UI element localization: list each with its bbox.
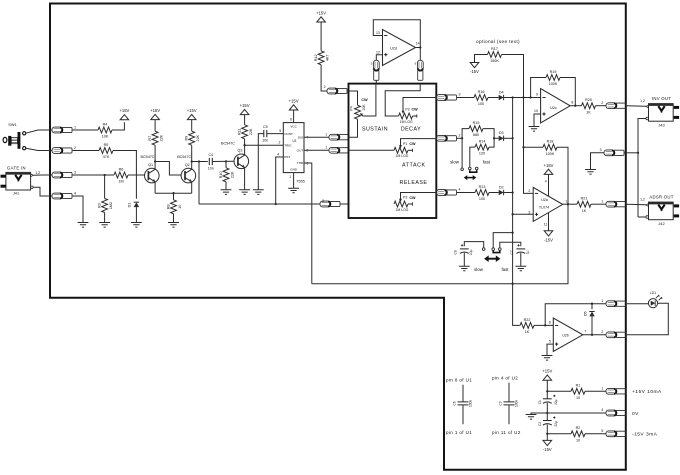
- svg-text:C5: C5: [263, 125, 268, 129]
- svg-text:22µ: 22µ: [554, 399, 558, 405]
- junction emitter rail / R8: [172, 192, 174, 194]
- wire to R18: [524, 146, 544, 148]
- potentiometer P1 ATTACK: [394, 142, 416, 158]
- svg-text:OUT: OUT: [297, 149, 304, 153]
- capacitor C5: [262, 125, 268, 143]
- wire U2a output down to bottom line: [513, 204, 568, 284]
- wire U2d pin 12 down: [376, 55, 382, 61]
- svg-text:optional (see text): optional (see text): [476, 39, 520, 44]
- junction gate line / R3: [103, 174, 105, 176]
- svg-text:5: 5: [549, 339, 551, 343]
- svg-text:CW: CW: [409, 142, 416, 146]
- wire U2a output to R21: [563, 203, 577, 205]
- wire up to R15: [462, 129, 469, 139]
- svg-text:1,2: 1,2: [35, 171, 40, 175]
- ground below C7: [515, 266, 526, 271]
- svg-text:1: 1: [325, 132, 327, 136]
- wire decay pot left to U2d output stub: [385, 84, 420, 116]
- +15V supply power header: [542, 369, 552, 381]
- LED LD1: [648, 291, 662, 308]
- svg-text:ADSR OUT: ADSR OUT: [649, 195, 673, 200]
- connector LED cathode: [606, 332, 626, 338]
- svg-text:100K: 100K: [546, 152, 555, 156]
- resistor R19: [546, 70, 560, 86]
- svg-text:D3: D3: [499, 131, 504, 135]
- svg-text:1K: 1K: [525, 330, 530, 334]
- svg-text:6: 6: [415, 61, 417, 65]
- svg-text:22K: 22K: [160, 134, 164, 141]
- resistor R12: [314, 51, 330, 65]
- wire R18 to U2a output: [557, 147, 568, 204]
- svg-text:680: 680: [473, 133, 479, 137]
- resistor R1: [571, 384, 585, 400]
- ground below C5: [253, 190, 264, 195]
- resistor R4: [98, 122, 112, 138]
- svg-text:1M LOG: 1M LOG: [396, 208, 409, 212]
- svg-text:fast: fast: [483, 159, 491, 164]
- svg-text:5: 5: [279, 129, 281, 133]
- ground below R8: [168, 223, 179, 228]
- svg-text:4K7: 4K7: [326, 55, 330, 62]
- svg-text:J41: J41: [13, 190, 19, 195]
- wire U2b output to connector: [583, 334, 606, 336]
- svg-text:RST: RST: [284, 155, 290, 159]
- wire R3 to ground: [104, 213, 106, 223]
- connector -15V: [606, 431, 626, 437]
- connector panel ground: [604, 150, 624, 156]
- resistor R16: [474, 90, 488, 106]
- resistor R20: [582, 98, 596, 114]
- junction R17/R18 column: [522, 96, 524, 98]
- junction U2b feedback: [544, 324, 546, 326]
- wire R10 to ground: [225, 182, 227, 190]
- svg-text:2: 2: [601, 101, 603, 105]
- wire R7 to Q1 collector: [154, 145, 156, 161]
- svg-text:150K: 150K: [490, 59, 499, 63]
- connector sustain top: [327, 88, 347, 94]
- svg-text:22K: 22K: [249, 128, 253, 135]
- svg-text:1: 1: [289, 175, 291, 179]
- svg-text:3: 3: [459, 93, 461, 97]
- svg-text:C3: C3: [498, 401, 502, 405]
- diode D3: [499, 131, 504, 141]
- svg-text:2: 2: [324, 85, 326, 89]
- wire D4 to U2c pin 9: [504, 97, 541, 99]
- svg-text:R1: R1: [576, 384, 581, 388]
- svg-text:R4: R4: [103, 122, 108, 126]
- junction sleeve bus: [637, 152, 639, 154]
- svg-text:-15V: -15V: [544, 237, 553, 242]
- wire to R19: [531, 78, 546, 98]
- +15V supply at R4: [119, 108, 129, 120]
- svg-text:R3: R3: [97, 203, 101, 208]
- svg-text:DIS: DIS: [298, 135, 303, 139]
- svg-text:P4: P4: [349, 106, 353, 110]
- svg-text:4: 4: [277, 153, 279, 157]
- wire THR down to bottom bus: [304, 163, 312, 284]
- wire C4 node down to release line: [198, 162, 200, 205]
- switch contact fast cap: [499, 248, 502, 251]
- ground below U1: [288, 188, 299, 193]
- wire U2b feedback top: [545, 304, 606, 326]
- svg-text:7555: 7555: [296, 179, 305, 184]
- wire R9 to Q2 collector: [191, 145, 193, 161]
- svg-text:CW: CW: [412, 108, 419, 112]
- wire bus to cap switch common: [493, 233, 512, 248]
- op-amp U2a: [533, 187, 563, 221]
- svg-text:slow: slow: [474, 267, 484, 272]
- svg-text:R13: R13: [479, 185, 486, 189]
- svg-text:13: 13: [376, 31, 380, 35]
- wire connector into pot box: [340, 203, 348, 205]
- wire RST down to release line: [276, 157, 284, 204]
- svg-text:3: 3: [74, 171, 76, 175]
- svg-text:pin 8 of U1: pin 8 of U1: [446, 378, 472, 383]
- timer U1 7555: [283, 123, 304, 173]
- +15V supply at R12: [316, 10, 326, 22]
- svg-text:slow: slow: [450, 160, 460, 165]
- ground below D1: [131, 223, 142, 228]
- wire to R1: [547, 390, 571, 392]
- ground at U2b: [542, 356, 553, 361]
- svg-text:10: 10: [576, 396, 580, 400]
- svg-text:1: 1: [74, 126, 76, 130]
- wire R20 to connector: [596, 105, 607, 107]
- -15V supply at U2a: [544, 231, 553, 243]
- resistor R5: [99, 143, 113, 159]
- svg-text:GATE IN: GATE IN: [7, 166, 26, 171]
- resistor R13: [475, 185, 489, 201]
- junction U2c output: [574, 105, 576, 107]
- resistor R17: [488, 47, 502, 63]
- op-amp U2b: [553, 318, 583, 352]
- wire VCC to +15V: [293, 110, 295, 122]
- wire into Q1 collector: [154, 162, 156, 170]
- svg-text:-15V 3mA: -15V 3mA: [632, 432, 658, 438]
- release right terminal tick: [412, 202, 414, 205]
- wire R17 to bus node: [502, 55, 524, 98]
- +15V supply at R9: [187, 108, 197, 120]
- svg-text:C2: C2: [538, 422, 542, 426]
- svg-text:fast: fast: [501, 267, 509, 272]
- junction R18 tap: [522, 146, 524, 148]
- diode D4: [499, 90, 504, 100]
- svg-text:8: 8: [571, 101, 573, 105]
- attack right terminal tick: [412, 149, 414, 152]
- svg-text:C8: C8: [454, 250, 458, 254]
- svg-text:C6: C6: [452, 401, 456, 405]
- junction bus / bottom line: [511, 283, 513, 285]
- wire U2a -15V pin: [548, 213, 550, 231]
- svg-text:TRIG: TRIG: [284, 143, 292, 147]
- wire R13 to D2: [489, 192, 499, 194]
- svg-text:LD1: LD1: [650, 291, 656, 295]
- wire fast contact to C7: [500, 242, 521, 248]
- wire U2d output down: [416, 48, 421, 61]
- wire J41 sleeve to connector: [33, 187, 52, 196]
- wire +15V to R12: [320, 22, 322, 51]
- switch contact slow: [461, 168, 464, 171]
- wire bus down to R22: [513, 284, 520, 326]
- wire C7 to ground: [520, 253, 522, 266]
- svg-text:1: 1: [565, 199, 567, 203]
- svg-text:4: 4: [601, 408, 603, 412]
- svg-text:SW1: SW1: [8, 122, 16, 127]
- resistor R11: [237, 125, 253, 139]
- wire R16 to D4: [488, 97, 499, 99]
- svg-text:14: 14: [416, 42, 420, 46]
- svg-text:1M: 1M: [118, 180, 123, 184]
- wire common emitter rail: [155, 192, 192, 194]
- svg-text:P2: P2: [405, 107, 409, 111]
- capacitor C2: [538, 416, 558, 426]
- svg-text:1µ: 1µ: [525, 250, 529, 254]
- connector OUT line: [329, 147, 349, 153]
- svg-text:R5: R5: [104, 143, 109, 147]
- junction 0V: [546, 412, 548, 414]
- svg-text:7: 7: [584, 329, 586, 333]
- svg-text:22K: 22K: [230, 171, 234, 178]
- svg-text:R16: R16: [478, 90, 485, 94]
- potentiometer P4 SUSTAIN: [349, 98, 368, 119]
- transistor Q1: [141, 155, 160, 183]
- svg-text:120: 120: [479, 152, 485, 156]
- wire connector to ground: [591, 153, 605, 170]
- svg-text:-15V: -15V: [470, 69, 479, 74]
- resistor R8: [166, 200, 182, 214]
- svg-text:100n: 100n: [469, 400, 473, 407]
- svg-text:0V: 0V: [632, 411, 639, 417]
- wire C4 to Q3 base: [212, 160, 234, 162]
- svg-text:U2d: U2d: [390, 46, 397, 50]
- svg-text:pin 11 of U2: pin 11 of U2: [492, 430, 521, 435]
- wire LED return loop: [626, 303, 668, 335]
- wire OUT to connector: [304, 149, 329, 151]
- wire R22 to U2b pin 6: [534, 324, 553, 326]
- svg-text:R20: R20: [585, 98, 592, 102]
- junction RST / release line: [275, 203, 277, 205]
- wire R14 right to join: [489, 138, 494, 147]
- svg-text:2: 2: [279, 140, 281, 144]
- svg-text:Q2: Q2: [185, 163, 190, 167]
- svg-text:BC547C: BC547C: [141, 155, 155, 159]
- wire SW1 contact 2 to connector: [26, 148, 52, 150]
- svg-text:+15V: +15V: [316, 10, 326, 15]
- capacitor C7: [510, 244, 529, 254]
- wire U2d feedback to pin 13: [373, 20, 420, 48]
- wire to R10: [225, 161, 227, 167]
- transistor Q3: [221, 141, 249, 168]
- wire C3 down: [508, 405, 510, 424]
- resistor R9: [185, 131, 201, 145]
- svg-text:10K: 10K: [362, 104, 366, 111]
- wire R11 down: [244, 139, 246, 145]
- decay right terminal tick: [416, 114, 418, 117]
- connector DIS line: [329, 134, 349, 140]
- svg-text:BC547C: BC547C: [221, 141, 235, 145]
- wire U2c output to R20: [570, 105, 581, 107]
- connector 0V: [606, 410, 626, 416]
- connector ADSR OUT: [606, 201, 626, 207]
- svg-text:11: 11: [544, 222, 548, 226]
- wire C5 to ground: [258, 134, 264, 190]
- svg-text:R14: R14: [479, 140, 486, 144]
- ground at U2c plus input: [529, 127, 540, 132]
- wire down to slow contact: [461, 138, 463, 167]
- svg-text:U2b: U2b: [562, 333, 569, 337]
- junction R19 tap: [529, 96, 531, 98]
- svg-text:+15V: +15V: [119, 108, 129, 113]
- wire CONT to C5: [267, 133, 284, 135]
- wire to C3: [508, 383, 510, 402]
- svg-text:1: 1: [601, 199, 603, 203]
- wire R12 to connector: [321, 65, 327, 91]
- svg-text:R7: R7: [148, 136, 152, 141]
- connector sustain wiper: [373, 60, 379, 80]
- wire R21 to connector: [591, 203, 606, 205]
- resistor R18: [543, 140, 557, 156]
- junction D3 bus: [511, 137, 513, 139]
- svg-text:+15V: +15V: [150, 108, 160, 113]
- svg-text:R11: R11: [237, 129, 241, 136]
- switch contact middle: [469, 167, 472, 170]
- op-amp U2d: [383, 30, 416, 66]
- wire C8 to ground: [463, 253, 465, 266]
- svg-text:GND: GND: [290, 168, 298, 172]
- svg-text:1: 1: [601, 299, 603, 303]
- wire release wiper to connector: [401, 193, 437, 201]
- svg-text:R10: R10: [219, 171, 223, 178]
- junction +15V / R1: [546, 390, 548, 392]
- wire J43 sleeve down: [638, 119, 646, 153]
- wire decay right stub: [413, 115, 417, 117]
- ground below Q3: [239, 190, 250, 195]
- -15V supply at R17: [470, 63, 479, 75]
- svg-text:C1: C1: [538, 400, 542, 404]
- svg-text:1: 1: [325, 146, 327, 150]
- svg-text:U2a: U2a: [541, 198, 548, 202]
- ground below C8: [459, 266, 470, 271]
- switch contact slow cap: [482, 248, 485, 251]
- switch shorting link caps: [493, 251, 500, 253]
- wire connector to R13: [457, 192, 475, 194]
- svg-text:pin 1 of U1: pin 1 of U1: [446, 430, 472, 435]
- wire R14 left to contact: [470, 147, 475, 167]
- svg-text:THR: THR: [297, 161, 304, 165]
- svg-text:6: 6: [549, 321, 551, 325]
- wire to R2: [547, 433, 571, 435]
- wire J41 tip to connector: [33, 174, 52, 176]
- junction Q3 base / R10: [225, 160, 227, 162]
- junction D5 bottom: [591, 334, 593, 336]
- svg-text:2: 2: [459, 134, 461, 138]
- connector pin 3: [52, 172, 72, 178]
- wire D2 to bus: [504, 192, 513, 194]
- op-amp U2c: [541, 89, 571, 124]
- connector pin 1: [52, 127, 72, 133]
- svg-text:D1: D1: [128, 203, 132, 208]
- wire connector to split: [457, 137, 462, 139]
- svg-text:C4: C4: [208, 153, 213, 157]
- resistor R7: [148, 131, 164, 145]
- svg-text:INV OUT: INV OUT: [652, 96, 671, 101]
- selector arrow caps: [488, 258, 497, 260]
- svg-text:CONT: CONT: [284, 132, 293, 136]
- connector pin 4: [52, 193, 72, 199]
- wire 0V to ground: [531, 413, 547, 414]
- svg-text:R6: R6: [119, 167, 124, 171]
- wire to R3: [104, 175, 106, 199]
- svg-text:U2c: U2c: [550, 106, 557, 110]
- svg-text:4: 4: [545, 180, 547, 184]
- diode D1: [128, 202, 139, 207]
- ground at panel return: [585, 170, 596, 175]
- wire to D5: [591, 304, 593, 310]
- junction R15/R14 split: [461, 137, 463, 139]
- capacitor C3: [498, 400, 518, 407]
- svg-text:R19: R19: [550, 70, 557, 74]
- wire bus to U2a pin 3: [513, 213, 534, 215]
- diode D5: [584, 311, 595, 316]
- wire Q2 collector to C4: [192, 161, 208, 163]
- wire release right stub: [408, 203, 413, 205]
- wire connector2 to R5: [72, 150, 99, 152]
- svg-text:22K: 22K: [196, 134, 200, 141]
- wire R6 to Q1 base: [128, 174, 145, 176]
- svg-text:+15V: +15V: [289, 98, 299, 103]
- svg-text:5: 5: [371, 61, 373, 65]
- wire +15V to R11: [244, 115, 246, 125]
- svg-text:1K: 1K: [586, 110, 591, 114]
- junction Q3 collector / TRIG: [243, 144, 245, 146]
- resistor R15: [469, 121, 483, 137]
- wire +15V down to C1: [546, 380, 548, 398]
- svg-text:+15V: +15V: [544, 163, 554, 168]
- svg-text:9: 9: [536, 93, 538, 97]
- wire +15V to R9: [191, 120, 193, 131]
- svg-text:pin 4 of U2: pin 4 of U2: [492, 376, 518, 381]
- svg-text:100: 100: [479, 197, 485, 201]
- svg-text:R9: R9: [185, 136, 189, 141]
- ground for gate sleeve: [78, 223, 89, 228]
- svg-text:100: 100: [478, 102, 484, 106]
- wire to C6: [462, 385, 464, 402]
- wire J42 sleeve to bus: [638, 216, 646, 218]
- svg-text:R15: R15: [473, 121, 480, 125]
- wire Q3 emitter to ground: [244, 168, 246, 190]
- svg-text:47K: 47K: [103, 155, 110, 159]
- transistor Q2: [177, 155, 195, 183]
- svg-text:3: 3: [528, 210, 530, 214]
- svg-text:1,2: 1,2: [640, 99, 645, 103]
- wire attack right stub: [408, 149, 413, 151]
- wire connector3 to R6: [72, 174, 114, 176]
- wire connector into box: [375, 80, 377, 83]
- junction bus / U2a plus input: [511, 213, 513, 215]
- wire release line to connector: [199, 203, 320, 205]
- wire R17 to -15V: [475, 55, 488, 63]
- junction Q2 collector: [191, 160, 193, 162]
- svg-text:4: 4: [459, 188, 461, 192]
- wire join to D3: [494, 137, 499, 139]
- capacitor C4: [208, 153, 214, 171]
- svg-text:10: 10: [576, 438, 580, 442]
- svg-text:SUSTAIN: SUSTAIN: [362, 127, 388, 133]
- svg-text:R17: R17: [491, 47, 498, 51]
- svg-text:R12: R12: [314, 54, 318, 61]
- junction D5 top: [591, 303, 593, 305]
- wire connector to LED: [626, 303, 648, 305]
